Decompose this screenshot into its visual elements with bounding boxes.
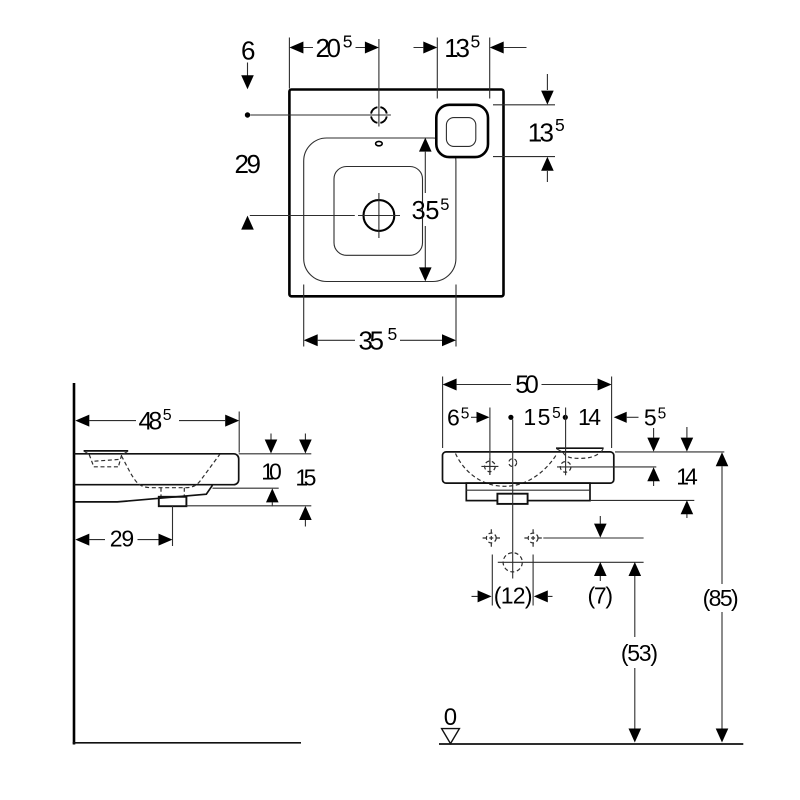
svg-text:35: 35 (412, 197, 440, 225)
svg-text:5: 5 (471, 31, 481, 51)
dimension 6.5 (447, 405, 490, 475)
dimension 48.5 (75, 407, 239, 453)
dimension 35.5 vertical (in basin) (412, 138, 450, 282)
dimension 50 (443, 371, 612, 448)
dashed bowl front (456, 454, 557, 487)
left faucet hole (dashed) (481, 458, 498, 475)
floor baseline (439, 743, 743, 745)
svg-text:(53): (53) (621, 640, 658, 666)
dashed soap dish bottom (563, 453, 600, 459)
pedestal step (466, 483, 590, 501)
dashed drain pipe (161, 488, 184, 498)
wall line (73, 383, 76, 745)
center overflow hole (dashed) (509, 459, 517, 467)
drain fitting (159, 497, 187, 506)
soap dish inner rounded square (446, 118, 475, 147)
dashed bowl profile (122, 454, 220, 487)
svg-text:50: 50 (515, 371, 539, 399)
faucet hole centerlines (250, 39, 391, 127)
soap dish rim (raised) (556, 448, 604, 452)
svg-text:15: 15 (295, 465, 316, 491)
dimension 29 (left, plan) (235, 149, 262, 230)
floor line (73, 742, 301, 744)
basin body front outline (443, 452, 614, 483)
svg-text:5: 5 (644, 405, 657, 431)
rim reference line right (615, 451, 724, 453)
svg-text:5: 5 (163, 407, 172, 424)
reference dot on faucet centerline (245, 112, 250, 117)
svg-text:5: 5 (461, 406, 470, 423)
svg-text:35: 35 (359, 325, 385, 355)
basin body profile (74, 454, 239, 485)
drain hole (dashed circle) (503, 553, 522, 572)
datum triangle (442, 729, 460, 744)
dimension 15.5 (523, 404, 560, 430)
svg-text:5: 5 (658, 406, 667, 423)
svg-text:20: 20 (316, 33, 342, 63)
mounting bolt holes (dashed) (483, 529, 542, 546)
svg-text:5: 5 (388, 324, 398, 344)
soap dish outer rounded square (436, 105, 488, 157)
drain centerlines (250, 193, 400, 238)
dimension 29 (side view) (75, 525, 172, 551)
svg-text:5: 5 (440, 196, 449, 214)
center vertical line (512, 420, 514, 579)
chain dot left (508, 415, 513, 420)
svg-text:6: 6 (447, 405, 460, 431)
dimension 15 (295, 434, 316, 527)
dashed faucet hole (89, 455, 121, 467)
svg-text:0: 0 (444, 704, 457, 731)
faucet hole reference line right (574, 466, 656, 468)
chain dot right (563, 408, 568, 459)
drain flange (497, 494, 527, 504)
svg-text:(7): (7) (588, 583, 614, 609)
dimension 35.5 horizontal (bottom of plan) (304, 285, 456, 356)
basin floor (inner rounded square) (334, 167, 423, 256)
reference lines right of side view (186, 454, 311, 506)
svg-text:5: 5 (552, 405, 561, 422)
svg-text:(12): (12) (494, 583, 533, 609)
svg-text:(85): (85) (703, 585, 739, 611)
faucet mounting plate (84, 451, 129, 454)
svg-text:13: 13 (528, 118, 554, 148)
apron bottom outline (75, 485, 212, 502)
dimension (12) (472, 555, 553, 609)
bolt reference line (543, 537, 643, 539)
faucet hole circle (371, 107, 387, 123)
right faucet hole (dashed) (557, 459, 574, 476)
drain circle (364, 200, 395, 231)
drain centerline extension (172, 506, 174, 546)
svg-text:5: 5 (343, 31, 353, 51)
svg-text:15: 15 (523, 404, 550, 430)
dimension (53) (621, 562, 658, 743)
step bottom reference line (590, 499, 694, 501)
dimension 14 (vertical) (676, 427, 698, 518)
dimension 13.5 right (soap dish) (493, 74, 565, 182)
dimension 20.5 (top) (289, 31, 379, 88)
dimension 6 (left top) (241, 36, 255, 90)
dimension 14 (horizontal) (578, 404, 639, 430)
basin inner rim (rounded square) (304, 138, 456, 282)
drain reference line (498, 561, 644, 563)
basin outer square outline (289, 90, 503, 297)
dimension 13.5 (top) (414, 31, 527, 98)
step joint line (466, 489, 590, 491)
overflow oval (376, 141, 383, 145)
svg-text:10: 10 (261, 458, 282, 484)
svg-text:6: 6 (241, 36, 255, 66)
svg-text:5: 5 (555, 115, 565, 135)
datum 0 label (444, 704, 457, 731)
dimension (85) (703, 452, 739, 742)
dimension (7) (588, 516, 614, 609)
svg-text:48: 48 (139, 407, 163, 435)
svg-text:14: 14 (578, 404, 601, 430)
svg-text:14: 14 (676, 464, 698, 490)
dimension 10 (261, 434, 282, 507)
svg-text:29: 29 (235, 149, 262, 179)
svg-text:29: 29 (110, 525, 134, 551)
dimension 5.5 (vertical) (644, 405, 666, 486)
svg-text:13: 13 (444, 33, 470, 63)
